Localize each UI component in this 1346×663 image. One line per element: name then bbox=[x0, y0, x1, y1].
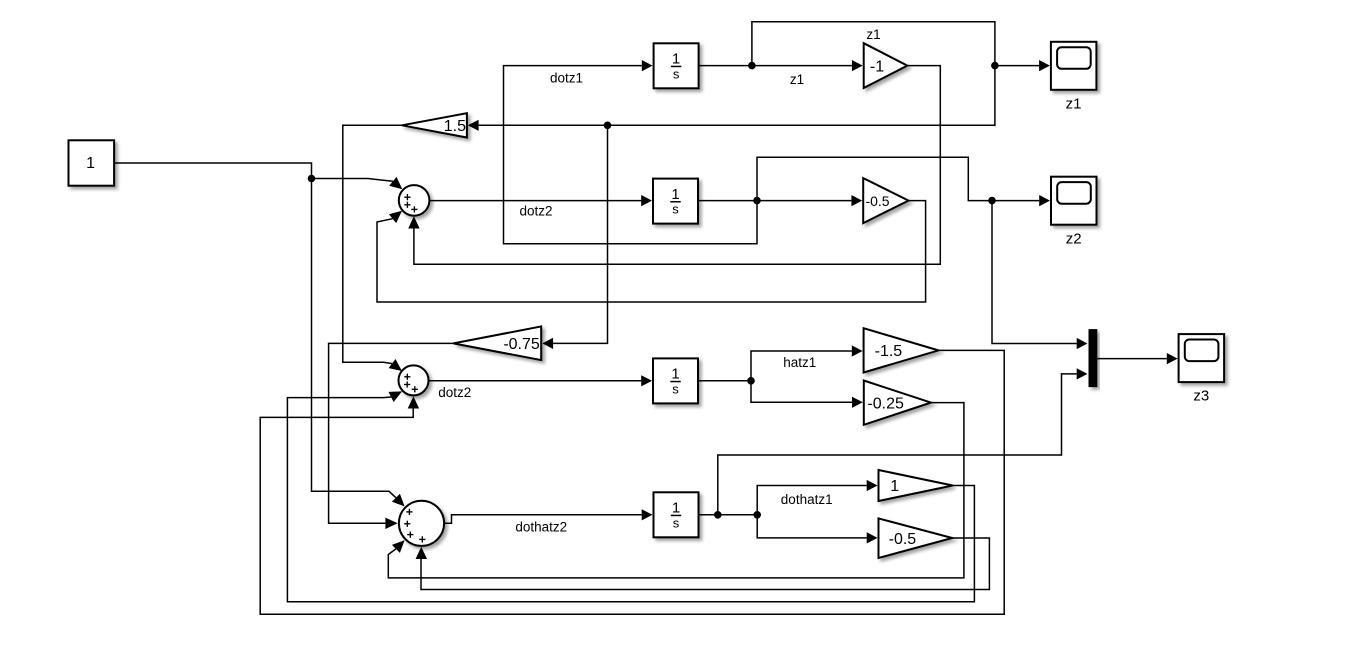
wire node B -> down/left/up -> integrator U1 in, signal dotz1 bbox=[504, 60, 758, 244]
svg-text:-1: -1 bbox=[870, 58, 884, 75]
integrator U1 (1/s) dotz1->z1 bbox=[654, 43, 699, 88]
svg-text:1: 1 bbox=[672, 51, 680, 68]
junction node A (constant branch) bbox=[308, 175, 316, 183]
wire integrator U1 out -> node D -> gain G1 in, signal z1 bbox=[699, 60, 863, 71]
junction node C (z2 scope tap) bbox=[988, 197, 996, 205]
svg-text:dotz1: dotz1 bbox=[550, 70, 583, 85]
svg-text:dothatz1: dothatz1 bbox=[781, 492, 833, 507]
integrator U4 (1/s) dothatz1 bbox=[654, 492, 699, 537]
wire mux M1 out -> scope z3 bbox=[1097, 353, 1177, 364]
integrator U3 (1/s) hatz1 bbox=[653, 358, 698, 403]
svg-text:z3: z3 bbox=[1193, 388, 1209, 405]
gain G1 value -1 (named z1) bbox=[864, 43, 908, 88]
wire node G -> down -> gain G6 in bbox=[751, 381, 863, 408]
wire node E -> down -> node F -> gain G3 in bbox=[468, 66, 995, 131]
wire node I -> up -> gain G7 in, signal dothatz1 bbox=[757, 480, 877, 515]
svg-text:-0.25: -0.25 bbox=[867, 395, 904, 412]
junction node D (z1 after integrator U1) bbox=[748, 62, 756, 70]
gain G7 value 1 bbox=[879, 470, 953, 501]
gain G6 value -0.25 bbox=[864, 381, 931, 425]
sum block S2 dotz2 (3 inputs +++) bbox=[399, 365, 429, 395]
junction node E (z1 scope tap) bbox=[991, 62, 999, 70]
gain G3 value 1.5 bbox=[402, 113, 467, 137]
wire gain G7 out -> long feedback -> sum S2 in2 (lower-left) bbox=[287, 391, 974, 601]
svg-text:z1: z1 bbox=[1066, 95, 1082, 112]
svg-text:dotz2: dotz2 bbox=[519, 203, 552, 218]
mux M1 bbox=[1089, 329, 1098, 387]
wire integrator U3 out -> node G bbox=[698, 380, 751, 382]
wire node F -> down -> gain G4 in bbox=[542, 125, 607, 349]
svg-text:1: 1 bbox=[86, 155, 95, 172]
wire node H -> up/right -> mux M1 in2 bbox=[718, 368, 1088, 515]
svg-text:-0.5: -0.5 bbox=[865, 193, 889, 209]
wire node D -> over the top -> node E -> scope z1 bbox=[752, 22, 1050, 71]
wire sum S1 -> integrator U2, signal dotz2 bbox=[429, 195, 652, 206]
wire gain G6 out -> feedback -> sum S3 in3 (lower-left) bbox=[388, 403, 964, 578]
svg-text:s: s bbox=[673, 515, 680, 530]
wire gain G3 out -> down -> sum S2 in1 (upper-left) bbox=[343, 125, 402, 371]
constant block Const=1 bbox=[69, 140, 115, 185]
wire sum S3 -> integrator U4, signal dothatz2 bbox=[444, 509, 652, 523]
junction node I (dothatz1 tap 2) bbox=[753, 511, 761, 519]
wire integrator U2 out -> node B -> gain G2 in bbox=[698, 195, 862, 206]
scope block z1 bbox=[1051, 42, 1097, 113]
junction node G (hatz1 after integrator U3) bbox=[747, 377, 755, 385]
svg-text:1: 1 bbox=[671, 366, 679, 383]
gain G4 value -0.75 bbox=[453, 326, 541, 360]
integrator U2 (1/s) dotz2->z2 bbox=[653, 179, 698, 224]
svg-text:s: s bbox=[672, 202, 679, 217]
wire gain G2 out -> feedback -> sum S1 in2 (lower-left) bbox=[377, 201, 926, 302]
svg-text:z2: z2 bbox=[1066, 230, 1082, 247]
junction node F (z1 line branch) bbox=[604, 122, 612, 130]
svg-text:s: s bbox=[673, 66, 680, 81]
gain G2 value -0.5 bbox=[863, 178, 908, 223]
scope block z3 bbox=[1179, 334, 1225, 405]
wire gain G8 out -> feedback -> sum S3 in4 (bottom) bbox=[416, 538, 990, 590]
wire node A -> sum S3 in1 (upper-left) bbox=[312, 179, 405, 507]
svg-text:dothatz2: dothatz2 bbox=[515, 520, 567, 535]
svg-text:1: 1 bbox=[671, 186, 679, 203]
gain G8 value -0.5 bbox=[879, 518, 953, 558]
wire gain G1 out -> feedback -> sum S1 in3 (bottom) bbox=[408, 66, 940, 265]
svg-text:1: 1 bbox=[672, 500, 680, 517]
svg-text:dotz2: dotz2 bbox=[438, 385, 471, 400]
junction node B (z2 after integrator U2) bbox=[753, 197, 761, 205]
wire integrator U4 out -> node H -> node I bbox=[699, 514, 758, 516]
wire node G -> up -> gain G5 in, signal hatz1 bbox=[751, 345, 863, 380]
wire node B -> jog up -> node C -> scope z2 bbox=[757, 157, 1050, 206]
junction node H (dothatz1 tap 1) bbox=[714, 511, 722, 519]
svg-text:1: 1 bbox=[890, 478, 899, 495]
scope block z2 bbox=[1051, 177, 1097, 248]
svg-text:hatz1: hatz1 bbox=[783, 355, 816, 370]
gain G5 value -1.5 bbox=[864, 328, 939, 372]
wire Const out -> node A -> sum S1 in1 (upper-left) bbox=[114, 163, 402, 189]
svg-text:-0.5: -0.5 bbox=[889, 531, 917, 548]
wire sum S2 -> integrator U3 bbox=[429, 375, 653, 386]
svg-text:z1: z1 bbox=[866, 27, 880, 42]
sum block S1 (3 inputs +++) bbox=[399, 185, 430, 216]
svg-text:-1.5: -1.5 bbox=[875, 343, 903, 360]
wire node I -> down -> gain G8 in bbox=[757, 515, 877, 544]
svg-text:-0.75: -0.75 bbox=[503, 336, 540, 353]
svg-text:z1: z1 bbox=[790, 72, 804, 87]
wire gain G4 out -> down -> sum S3 in2 (left) bbox=[329, 343, 454, 529]
svg-text:s: s bbox=[672, 382, 679, 397]
wire node C -> mux M1 in1 bbox=[992, 201, 1088, 350]
wire gain G5 out -> long feedback -> sum S2 in3 (bottom) bbox=[260, 350, 1004, 614]
sum block S3 (4 inputs ++++) bbox=[399, 501, 444, 546]
svg-text:1.5: 1.5 bbox=[444, 118, 466, 135]
